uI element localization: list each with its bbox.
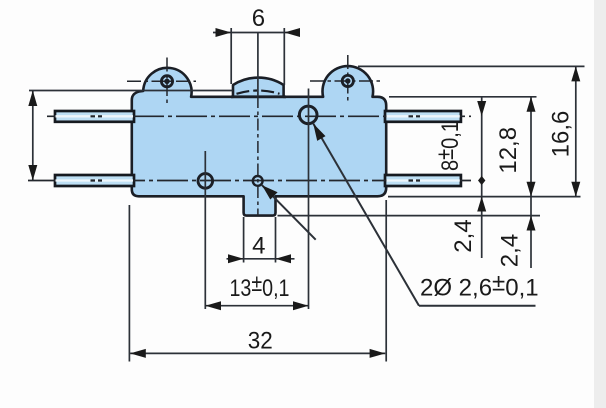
dim 32: right arrow: [370, 349, 386, 358]
dim 12,8: up arrow at body top: [527, 97, 536, 112]
dim 13: right arrow: [293, 301, 309, 310]
dim 16,6 line: [575, 66, 577, 196]
right ear centerline horizontal: [310, 80, 381, 82]
right extension line A (ear top, y=66.4): [358, 65, 585, 67]
dim 4: dimension line: [227, 258, 295, 260]
dim 13: left arrow: [205, 301, 221, 310]
dim 32: extension lines: [128, 205, 130, 362]
leader H2 arrowhead: [262, 185, 278, 199]
dim 16,6: up arrow: [571, 66, 580, 81]
dim 13+-0,1: dimension line: [205, 305, 308, 307]
dim 32: left arrow: [130, 349, 146, 358]
terminal pin bottom-right: [385, 175, 461, 186]
hole H2 (small center hole): [253, 176, 263, 186]
centerline dashes on pin top-right: [409, 115, 421, 117]
right extension line C (body bottom, y=196.6): [388, 196, 581, 198]
dim 4: right arrow: [276, 254, 292, 263]
dim 6: extension lines: [230, 28, 232, 84]
leader to hole H3: [313, 124, 419, 306]
right extension line D (tab bottom, y=215.6): [278, 215, 541, 217]
svg-text:16,6: 16,6: [548, 111, 575, 158]
svg-text:8±0,1: 8±0,1: [432, 121, 464, 171]
dim 12,8 / 2,4 chain line: [530, 97, 532, 268]
left mounting hole center dot: [164, 79, 169, 84]
body top edge line under button: [231, 95, 286, 98]
page edge gray strip: [594, 0, 606, 408]
dim 12,8: down arrow at body bottom: [527, 182, 536, 197]
hole H1 vertical centerline / extension: [204, 151, 206, 309]
leader to hole H2: [262, 185, 316, 240]
hole H1 (left 2.6mm hole): [198, 174, 213, 189]
svg-text:12,8: 12,8: [495, 127, 522, 174]
leader H3 arrowhead: [313, 124, 325, 141]
centerline dashes on pin bottom-right: [409, 179, 421, 181]
right mounting hole center dot: [345, 78, 350, 83]
dim 2,4 (second): up arrow at tab bottom: [527, 216, 536, 231]
svg-text:2,4: 2,4: [450, 219, 477, 252]
svg-text:2,4: 2,4: [497, 234, 524, 267]
centerline top pins: [47, 115, 471, 117]
dim 6: right arrow: [284, 28, 300, 37]
svg-text:6: 6: [252, 5, 265, 32]
svg-text:32: 32: [248, 327, 273, 354]
button/hole H2 vertical centerline: [257, 33, 259, 97]
centerline bottom pins: [28, 180, 471, 182]
dim 16,6: down arrow: [571, 182, 580, 197]
svg-text:2Ø 2,6±0,1: 2Ø 2,6±0,1: [420, 269, 539, 301]
right ear centerline vertical: [347, 55, 349, 103]
white stripe on pin bottom-right: [387, 179, 460, 181]
switch body S1 (housing silhouette with mounting domes, plunger button, bottom tab): [132, 66, 386, 216]
terminal pin top-left: [55, 111, 134, 122]
dim 2,4 (first): up arrow at body bottom: [477, 197, 486, 212]
dim 8+-0,1 / 2,4 chain line: [481, 97, 483, 258]
right mounting hole: [342, 75, 353, 86]
left ear centerline horizontal: [127, 80, 196, 82]
centerline dashes on pin top-left: [91, 115, 103, 117]
white stripe on pin top-right: [387, 115, 460, 117]
white stripe on pin top-left: [56, 115, 134, 117]
left dim: down arrow: [28, 165, 37, 180]
left mounting hole: [161, 76, 172, 87]
left unlabeled dimension line: [32, 91, 34, 181]
dim 4: extension lines: [243, 217, 245, 263]
leader underline: [419, 305, 536, 307]
dim 4: left arrow: [228, 254, 244, 263]
right extension line B (body top, y=96.8): [389, 96, 537, 98]
dim 6: left arrow: [216, 28, 232, 37]
dim 8: down arrow at top pin centerline: [477, 101, 486, 116]
plunger internal dashed arc: [237, 91, 280, 94]
left dim: up arrow: [28, 91, 37, 107]
terminal pin bottom-left: [55, 175, 134, 186]
dim 6: dimension line: [213, 32, 300, 34]
svg-text:4: 4: [252, 233, 265, 260]
hole H3 vertical centerline / extension: [308, 89, 310, 310]
dim 8: diamond terminator at bottom pin centerline: [478, 176, 485, 185]
left ear centerline vertical: [166, 58, 168, 105]
white stripe on pin bottom-left: [56, 179, 134, 181]
dim 32: dimension line: [130, 352, 385, 354]
svg-text:13±0,1: 13±0,1: [230, 270, 290, 302]
centerline dashes on pin bottom-left: [91, 179, 103, 181]
terminal pin top-right: [385, 111, 461, 122]
hole H3 (right 2.6mm hole): [299, 106, 317, 124]
extension line (left datum) y=90.5: [29, 90, 233, 92]
